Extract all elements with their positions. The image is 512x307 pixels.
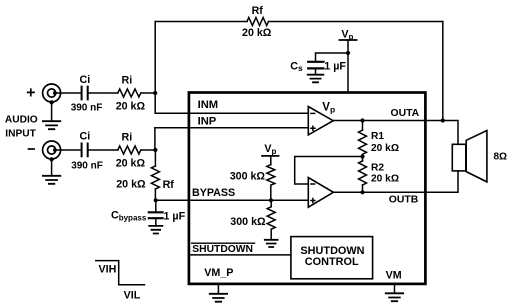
- svg-text:R2: R2: [371, 163, 384, 174]
- wire R2 bottom stub: [362, 185, 364, 192]
- capacitor Cs (shunt plates): [308, 62, 323, 69]
- ground under Cs: [308, 75, 324, 83]
- junction node: R1-R2 midpoint: [360, 154, 364, 158]
- svg-text:INM: INM: [198, 99, 219, 111]
- wire +input jack to Ci: [55, 92, 81, 94]
- capacitor Cbypass (shunt plates): [155, 200, 157, 211]
- wire jack - stem to ground: [51, 159, 53, 176]
- svg-text:Cs: Cs: [290, 61, 303, 74]
- speaker body: [452, 144, 466, 171]
- svg-text:Ri: Ri: [122, 131, 133, 143]
- svg-text:Rf: Rf: [163, 179, 175, 191]
- junction node: R1 top at OUTA: [360, 118, 364, 122]
- wire 300k bottom to ground: [270, 229, 272, 239]
- jack - center pin dot: [53, 148, 57, 152]
- wire R1-R2 middle stub: [362, 154, 364, 161]
- shutdown waveform VIH/VIL: [96, 261, 145, 285]
- op-amp U1 minus mark: [311, 112, 315, 114]
- ground under + jack: [43, 121, 60, 129]
- overline of SHUTDOWN pin label: [192, 242, 255, 244]
- resistor 300k top (vertical zigzag): [267, 165, 275, 186]
- op-amp U2 (bottom amplifier): [308, 178, 333, 208]
- svg-text:BYPASS: BYPASS: [192, 187, 235, 199]
- resistor Ri (top, horizontal zigzag): [118, 89, 141, 97]
- ground under 300k bottom: [265, 240, 278, 247]
- junction node: Vp / Cs: [346, 51, 350, 55]
- wire INP vertical: [154, 128, 156, 150]
- op-amp U2 minus mark: [311, 183, 315, 185]
- wire -input jack to Ci: [55, 149, 81, 151]
- junction node: 300k divider at BYPASS: [269, 198, 273, 202]
- power Vp rail top (bar for Cs): [339, 39, 356, 41]
- speaker cone: [466, 131, 487, 182]
- svg-text:VIL: VIL: [124, 289, 141, 301]
- svg-text:20 kΩ: 20 kΩ: [116, 157, 146, 169]
- svg-text:390 nF: 390 nF: [71, 161, 103, 172]
- wire top feedback left segment: [155, 21, 247, 23]
- ground under VM_P pin: [217, 284, 219, 294]
- svg-text:OUTA: OUTA: [391, 108, 420, 119]
- ground under - jack: [43, 176, 60, 184]
- capacitor Ci (bottom, series plates): [82, 144, 88, 157]
- wire feedback vertical right: [442, 22, 444, 121]
- resistor 300k bottom (vertical zigzag): [267, 207, 275, 230]
- ground under VM pin: [394, 284, 396, 293]
- connector RCA jack + input: [43, 84, 61, 102]
- wire Ri to node (bottom): [141, 149, 156, 151]
- wire Vp to IC top (Vp pin): [347, 40, 349, 93]
- wire OUTA from amp1 output to speaker: [333, 121, 458, 145]
- junction node: bottom Ri / INP / Rf: [153, 148, 157, 152]
- wire R1 top stub: [362, 121, 364, 131]
- svg-text:300 kΩ: 300 kΩ: [230, 216, 266, 228]
- svg-text:AUDIO: AUDIO: [5, 115, 38, 126]
- junction node: R2 bottom at OUTB: [360, 190, 364, 194]
- wire node to Rf vertical: [154, 150, 156, 166]
- junction node: bypass / Cbypass: [154, 198, 158, 202]
- jack - shield dot: [50, 157, 54, 161]
- svg-text:20 kΩ: 20 kΩ: [371, 174, 399, 185]
- wire Vp bar to 300k top: [270, 156, 272, 165]
- op-amp U2 plus mark: [311, 199, 315, 203]
- junction node: top Ri to feedback: [153, 91, 157, 95]
- wire OUTB from amp2 output to speaker: [333, 171, 458, 192]
- svg-text:VIH: VIH: [99, 264, 117, 276]
- wire BYPASS: [155, 199, 308, 201]
- wire Rf to bypass node: [154, 189, 156, 200]
- svg-text:Ri: Ri: [122, 75, 133, 87]
- ground under Cbypass: [149, 226, 162, 234]
- junction node: feedback to OUTA: [441, 118, 445, 122]
- power Vp rail for 300k (bar): [262, 155, 278, 157]
- audio input plus sign: [28, 89, 34, 95]
- wire left vertical from Rf line down to INM: [154, 22, 156, 114]
- svg-text:1 µF: 1 µF: [324, 61, 346, 73]
- resistor Ri (bottom, horizontal zigzag): [118, 146, 141, 154]
- svg-text:390 nF: 390 nF: [71, 103, 103, 114]
- IC boundary box: [189, 93, 426, 284]
- wire INP: [155, 127, 308, 129]
- svg-text:R1: R1: [371, 131, 384, 142]
- wire Ci to Ri (top): [89, 92, 118, 94]
- svg-text:1 µF: 1 µF: [164, 210, 186, 222]
- resistor R1 (vertical zigzag): [359, 130, 367, 154]
- wire bypass node to 300k bottom: [270, 200, 272, 206]
- wire INM: [155, 112, 308, 114]
- wire Vp node to Cs: [316, 53, 349, 61]
- svg-text:20 kΩ: 20 kΩ: [371, 143, 399, 154]
- svg-text:300 kΩ: 300 kΩ: [230, 171, 266, 183]
- wire amp2 feedback from R1-R2 node: [295, 157, 363, 185]
- svg-text:20 kΩ: 20 kΩ: [116, 179, 146, 191]
- svg-text:Ci: Ci: [80, 131, 91, 143]
- svg-text:8Ω: 8Ω: [494, 151, 508, 162]
- resistor R2 (vertical zigzag): [359, 161, 367, 185]
- wire 300k top to bypass node: [270, 185, 272, 200]
- wire jack + stem to ground: [51, 102, 53, 121]
- wire Ri to node (top): [141, 92, 155, 94]
- resistor Rf (vertical zigzag to bypass): [151, 166, 159, 189]
- svg-text:OUTB: OUTB: [389, 195, 419, 206]
- svg-text:20 kΩ: 20 kΩ: [116, 100, 146, 112]
- jack + shield dot: [50, 100, 54, 104]
- svg-text:Rf: Rf: [252, 5, 264, 17]
- svg-text:20 kΩ: 20 kΩ: [242, 27, 272, 39]
- svg-text:VM: VM: [386, 270, 402, 282]
- svg-text:INPUT: INPUT: [5, 128, 36, 139]
- svg-text:Ci: Ci: [80, 74, 91, 86]
- svg-text:VM_P: VM_P: [204, 267, 233, 279]
- shutdown control box: [291, 237, 373, 279]
- wire SHUTDOWN pin to control box: [189, 254, 291, 256]
- op-amp U1 (top amplifier): [308, 107, 333, 135]
- audio input minus sign: [29, 148, 35, 150]
- wire top feedback right segment: [269, 21, 443, 23]
- wire Ci to Ri (bottom): [89, 149, 118, 151]
- svg-text:CONTROL: CONTROL: [305, 256, 359, 268]
- op-amp U1 plus mark: [311, 126, 315, 130]
- resistor Rf (top feedback, horizontal zigzag): [247, 18, 268, 26]
- svg-text:INP: INP: [198, 116, 217, 128]
- connector RCA jack - input: [43, 141, 61, 159]
- capacitor Ci (top, series plates): [82, 87, 88, 100]
- jack + center pin dot: [53, 91, 57, 95]
- svg-text:SHUTDOWN: SHUTDOWN: [192, 244, 253, 255]
